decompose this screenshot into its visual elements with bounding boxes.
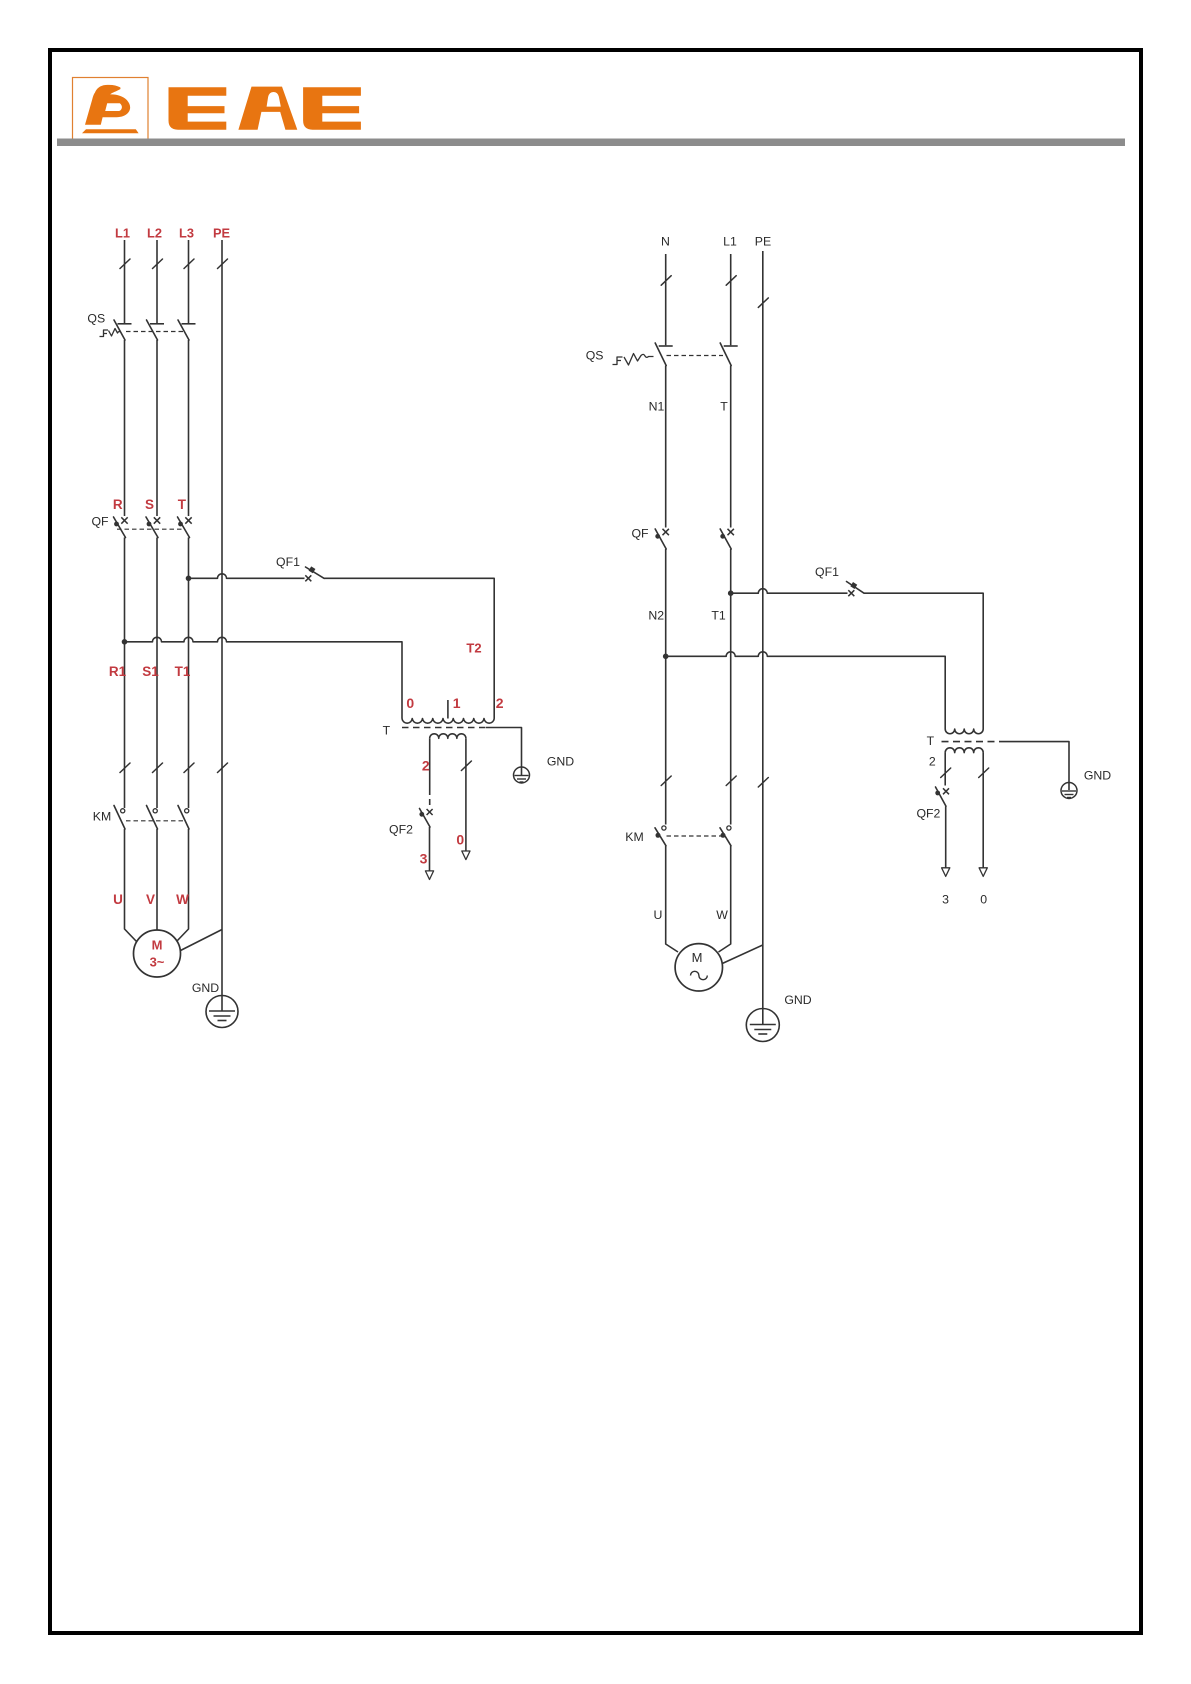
wire QF1 feed right (731, 589, 848, 594)
wire secondary 2 lead right (941, 753, 951, 786)
wire W KM-motor (177, 829, 189, 942)
svg-text:GND: GND (784, 993, 811, 1007)
wire L1 QS-QF (124, 340, 126, 516)
circuit breaker QF1 right (815, 565, 864, 596)
svg-text:T: T (927, 734, 935, 748)
svg-text:T: T (383, 724, 391, 738)
wire secondary 0 lead terminal (461, 738, 471, 859)
svg-text:QS: QS (87, 312, 105, 326)
wire N2 QF-KM (661, 549, 671, 825)
node S1 (142, 664, 159, 679)
node R (113, 497, 123, 512)
node PE right (755, 235, 771, 249)
svg-text:2: 2 (496, 695, 504, 711)
wire QF1 to transformer right (864, 593, 983, 729)
svg-text:QF: QF (91, 515, 109, 529)
wire N incoming (661, 254, 671, 345)
svg-text:0: 0 (980, 893, 987, 907)
svg-text:PE: PE (755, 235, 771, 249)
svg-text:W: W (716, 908, 728, 922)
junction on L3 feed (186, 576, 192, 582)
node U right (654, 908, 663, 922)
pin 1 (453, 695, 461, 711)
node T1 (711, 609, 726, 623)
node N1 (649, 400, 665, 414)
svg-text:L1: L1 (115, 226, 130, 241)
wire core to GND (486, 728, 522, 776)
pin 2 (496, 695, 504, 711)
wire L2 incoming (153, 240, 163, 323)
svg-text:3~: 3~ (150, 955, 165, 970)
node 0 right (980, 893, 987, 907)
transformer label T2 (466, 641, 481, 656)
svg-text:M: M (152, 938, 163, 953)
svg-text:V: V (146, 892, 155, 907)
transformer label T right (927, 734, 935, 748)
disconnect switch QS (87, 312, 195, 341)
svg-text:QF1: QF1 (815, 565, 839, 579)
svg-text:S1: S1 (142, 664, 159, 679)
disconnect switch QS right (586, 343, 738, 366)
svg-text:W: W (176, 892, 189, 907)
wire QF1 to transformer (324, 578, 494, 718)
node L3 (179, 226, 194, 241)
svg-text:QF: QF (631, 527, 649, 541)
svg-text:L2: L2 (147, 226, 162, 241)
contactor KM right (625, 826, 731, 846)
svg-text:U: U (113, 892, 123, 907)
svg-text:QF2: QF2 (916, 807, 940, 821)
node N2 (648, 609, 664, 623)
wire W KM-motor right (719, 846, 731, 952)
wire motor frame to PE right (722, 945, 763, 964)
ground GND motor earth (192, 981, 238, 1028)
contactor KM (93, 806, 189, 830)
svg-text:KM: KM (625, 830, 643, 844)
svg-text:N2: N2 (648, 609, 664, 623)
wire T1 QF-KM (184, 538, 194, 809)
node V (146, 892, 155, 907)
wire L1 incoming (120, 240, 130, 323)
svg-text:N1: N1 (649, 400, 665, 414)
svg-text:S: S (145, 497, 154, 512)
circuit breaker QF right (631, 527, 733, 550)
wire motor frame to PE (181, 930, 223, 951)
EAE logo (73, 78, 361, 140)
wire QF2 output terminal 3 right (942, 806, 950, 876)
wire secondary 0 lead terminal right (979, 753, 989, 877)
wire L2 QS-QF (156, 340, 158, 516)
svg-text:N: N (661, 235, 670, 249)
node L1 right (723, 235, 737, 249)
svg-text:T1: T1 (711, 609, 726, 623)
node T right (720, 400, 728, 414)
svg-text:GND: GND (192, 981, 219, 995)
wire N tap to transformer (666, 652, 946, 729)
svg-text:GND: GND (547, 755, 574, 769)
node N right (661, 235, 670, 249)
node T1 (175, 664, 191, 679)
node U (113, 892, 123, 907)
wire T QS-QF (730, 366, 732, 528)
circuit breaker QF1 (276, 555, 324, 581)
wire core to GND right (1000, 742, 1070, 790)
svg-text:QF2: QF2 (389, 823, 413, 837)
circuit breaker QF2 right (916, 787, 949, 821)
node PE (213, 226, 231, 241)
svg-text:T: T (178, 497, 187, 512)
node W (176, 892, 189, 907)
wire S1 QF-KM (153, 538, 163, 809)
wire L1 tap to transformer (125, 637, 403, 718)
wire QF2 output terminal 3 (425, 827, 433, 880)
wire PE conductor (218, 240, 228, 1011)
svg-text:3: 3 (942, 893, 949, 907)
svg-text:0: 0 (406, 695, 414, 711)
pin 0 (406, 695, 414, 711)
wire secondary 2 lead (429, 738, 431, 806)
wire N1 QS-QF (665, 366, 667, 528)
svg-text:GND: GND (1084, 769, 1111, 783)
svg-text:1: 1 (453, 695, 461, 711)
svg-text:PE: PE (213, 226, 231, 241)
transformer T core label T (383, 724, 391, 738)
node R1 (109, 664, 127, 679)
transformer T2 windings (402, 700, 494, 738)
wire T1 QF-KM (726, 549, 736, 825)
motor M 3-phase (134, 930, 181, 977)
svg-text:R1: R1 (109, 664, 127, 679)
svg-text:T1: T1 (175, 664, 191, 679)
wire U KM-motor right (666, 846, 678, 952)
svg-text:M: M (692, 950, 703, 965)
svg-text:0: 0 (456, 831, 464, 847)
junction on N feed (663, 654, 669, 660)
svg-text:T: T (720, 400, 728, 414)
circuit breaker QF (91, 515, 191, 538)
wire PE conductor right (758, 251, 768, 1025)
motor M single phase (675, 944, 722, 991)
wire L3 incoming (184, 240, 194, 323)
ground GND motor earth right (746, 993, 811, 1042)
svg-text:R: R (113, 497, 123, 512)
wire U KM-motor (125, 829, 137, 942)
svg-text:2: 2 (929, 755, 936, 769)
node 2 secondary (422, 758, 430, 774)
node L1 (115, 226, 130, 241)
svg-text:3: 3 (420, 851, 428, 867)
node T (178, 497, 187, 512)
node S (145, 497, 154, 512)
circuit breaker QF2 (389, 809, 433, 837)
wire L3 QS-QF (188, 340, 190, 516)
wire R1 QF-KM (120, 538, 130, 809)
node W right (716, 908, 728, 922)
node 2 right (929, 755, 936, 769)
svg-text:KM: KM (93, 810, 111, 824)
svg-text:L3: L3 (179, 226, 194, 241)
node L2 (147, 226, 162, 241)
wire QF1 feed (189, 574, 305, 579)
svg-text:L1: L1 (723, 235, 737, 249)
ground GND transformer T2 (514, 755, 575, 784)
junction on L1 feed (122, 639, 128, 645)
wire L1 incoming right (726, 254, 736, 345)
svg-text:QS: QS (586, 349, 604, 363)
node 3 right (942, 893, 949, 907)
ground GND transformer right (1061, 769, 1111, 799)
junction on T1 feed (728, 590, 734, 596)
wire V KM-motor (156, 829, 158, 930)
node 3 (420, 851, 428, 867)
svg-text:QF1: QF1 (276, 555, 300, 569)
transformer T windings right (942, 729, 1000, 753)
node 0 (456, 831, 464, 847)
svg-text:2: 2 (422, 758, 430, 774)
svg-text:U: U (654, 908, 663, 922)
svg-text:T2: T2 (466, 641, 481, 656)
